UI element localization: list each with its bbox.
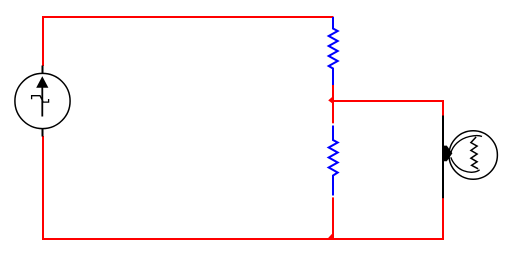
wire left upper (source top lead) <box>42 16 44 66</box>
bulb inner top curve <box>451 136 482 153</box>
node A junction arrow <box>328 95 334 104</box>
resistor R2 <box>329 126 338 196</box>
node B junction arrow <box>327 232 333 239</box>
lamp lead (black vertical) <box>442 116 444 199</box>
lamp L1 <box>443 116 497 199</box>
source circle <box>15 73 70 128</box>
filament zigzag <box>471 137 478 169</box>
wire right branch lower (lamp to bottom rail) <box>442 198 444 240</box>
arrow shaft <box>41 86 43 117</box>
wire R2 bottom lead to node B <box>332 197 334 239</box>
wire left lower (source bottom to ground rail) <box>42 136 44 240</box>
wire node A to R2 top lead <box>332 100 334 123</box>
wire top from source to node A branch <box>42 16 334 18</box>
bulb glass circle <box>449 131 497 179</box>
AC tilde mark <box>32 96 49 102</box>
arrowhead <box>36 76 48 88</box>
wire right branch upper (to lamp) <box>442 100 444 116</box>
wire bottom rail <box>42 238 444 240</box>
wire middle horizontal node A to right branch <box>332 100 444 102</box>
terminal stub top <box>42 66 44 74</box>
resistor R1 <box>329 17 338 85</box>
current source U1 <box>15 66 70 137</box>
wire R1 bottom lead to node A <box>332 85 334 102</box>
lamp base wedge <box>443 146 452 162</box>
terminal stub bottom <box>42 129 44 137</box>
bulb inner bottom curve <box>451 157 480 172</box>
